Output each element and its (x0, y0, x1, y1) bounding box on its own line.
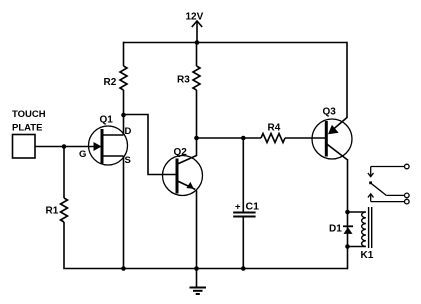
node: junction D1 / K1 bottom (345, 244, 350, 249)
svg-text:G: G (79, 149, 86, 160)
svg-text:R2: R2 (104, 77, 117, 88)
svg-text:D1: D1 (329, 224, 342, 235)
svg-text:+: + (235, 202, 241, 213)
svg-text:TOUCH: TOUCH (12, 109, 46, 120)
svg-text:12V: 12V (186, 11, 204, 22)
svg-text:R4: R4 (268, 123, 281, 134)
wire: drain node to Q2 base (L shape) (124, 115, 179, 175)
wire: R4 to Q3 base (285, 137, 327, 139)
svg-text:PLATE: PLATE (12, 123, 42, 134)
node: junction Q2 emitter / ground rail (194, 266, 199, 271)
ground symbol (190, 269, 207, 295)
wire: top rail down to R2 (123, 42, 125, 66)
relay contact terminal (NC) (405, 164, 410, 169)
svg-text:Q3: Q3 (323, 107, 337, 118)
node: junction Q1 source / ground rail (121, 266, 126, 271)
resistor R1 (61, 198, 68, 222)
touch plate electrode (13, 135, 36, 159)
svg-text:Q1: Q1 (100, 115, 114, 126)
transistor Q3 (PNP) (312, 118, 352, 160)
relay contacts (SPDT switch) (368, 167, 405, 202)
wire: top rail right corner down to Q3 emitter (346, 42, 348, 118)
wire: R2 bottom to Q1 drain node (123, 90, 125, 135)
svg-text:K1: K1 (361, 250, 374, 261)
node: junction R2 / Q1 drain / Q2 base (121, 113, 126, 118)
wire: top rail down to R3 (196, 43, 198, 67)
wire: +12V top rail (124, 42, 348, 44)
node: relay contact pivot (369, 181, 372, 184)
wire: Q2 emitter down to ground rail (196, 191, 198, 269)
resistor R3 (193, 66, 200, 90)
transistor Q1 (JFET) (89, 126, 128, 165)
label TOUCH PLATE (12, 109, 46, 134)
relay contact terminal (NO) (405, 199, 410, 204)
wire: C1 top lead (242, 138, 244, 212)
resistor R2 (120, 66, 127, 90)
wire: R3 bottom to mid node (196, 90, 198, 138)
relay contact terminal (common) (405, 193, 410, 198)
svg-text:D: D (125, 126, 132, 137)
wire: R1 bottom to ground rail corner (64, 222, 124, 269)
wire: Q1 source down to ground rail (123, 156, 125, 269)
12V supply arrow (192, 21, 202, 43)
wire: Q3 collector down to relay coil node (347, 159, 349, 212)
relay coil K1 (348, 207, 372, 248)
svg-text:R1: R1 (46, 206, 59, 217)
wire: C1 bottom lead to ground rail (242, 217, 244, 269)
diode D1 (343, 212, 353, 247)
wire: junction down to R1 (63, 147, 65, 199)
node: junction R3 / Q2 collector / mid wire (194, 136, 199, 141)
node: junction touch plate / R1 (62, 144, 67, 149)
svg-text:S: S (125, 155, 131, 166)
resistor R4 (261, 134, 285, 143)
wire: mid horizontal to R4 (197, 137, 262, 139)
svg-text:Q2: Q2 (174, 147, 188, 158)
wire: Q2 collector up to mid node (196, 138, 198, 156)
node: junction 12V on top rail (195, 40, 200, 45)
node: junction Q3 collector / D1 / K1 top (345, 210, 350, 215)
wire: coil node down to ground rail corner (347, 247, 349, 270)
svg-text:R3: R3 (177, 75, 190, 86)
wire: ground bottom rail (124, 268, 348, 270)
node: junction C1 on mid wire (241, 136, 246, 141)
node: junction C1 / ground rail (241, 266, 246, 271)
svg-text:C1: C1 (246, 201, 260, 213)
capacitor C1 (233, 213, 255, 217)
transistor Q2 (NPN) (163, 156, 203, 196)
wire: touch plate to Q1 gate (35, 146, 94, 148)
